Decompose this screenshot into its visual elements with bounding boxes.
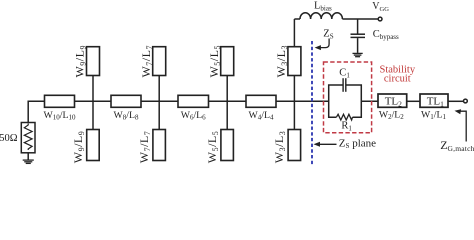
arrow Z_G,match pointer <box>460 111 466 141</box>
stub W9/L9 top box <box>87 47 100 76</box>
wire 250ohm to ground <box>27 153 29 160</box>
svg-text:W9/L9: W9/L9 <box>73 45 88 78</box>
resistor 250ohm box <box>21 123 35 153</box>
series line W6/L6 box <box>178 95 209 107</box>
inductor L_bias <box>300 13 342 19</box>
node Z_S plane dashed line <box>311 41 313 165</box>
series line W8/L8 box <box>111 95 141 107</box>
stub W5/L5 bottom box <box>221 130 234 161</box>
terminal V_GG <box>378 17 382 21</box>
series line W10/L10 box <box>45 95 75 107</box>
wire bias rail left <box>294 18 300 20</box>
wire 250-ohm branch <box>27 101 29 123</box>
svg-text:W3/L3: W3/L3 <box>272 131 287 164</box>
wire main rail <box>28 100 329 102</box>
wire bias rail to VGG <box>342 18 378 20</box>
stub W7/L7 top box <box>153 47 166 76</box>
wire junction 4 bias riser <box>293 19 295 130</box>
svg-text:W5/L5: W5/L5 <box>207 45 222 78</box>
transmission line TL2 box <box>378 94 407 107</box>
capacitor C_bypass plates <box>351 33 366 35</box>
stability loop wires <box>329 85 362 117</box>
stub W3/L3 bottom box <box>288 130 301 161</box>
svg-text:W9/L9: W9/L9 <box>71 131 86 164</box>
series line W4/L4 box <box>246 95 276 107</box>
ground symbol 250ohm <box>23 160 34 163</box>
wire TL1 to output terminal <box>448 100 464 102</box>
svg-text:W7/L7: W7/L7 <box>139 45 154 78</box>
stub W9/L9 bottom box <box>87 130 100 161</box>
wire junction 2 stub riser <box>158 75 160 130</box>
svg-text:ZS plane: ZS plane <box>339 137 376 150</box>
stub W5/L5 top box <box>221 47 234 76</box>
transmission line TL1 box <box>420 94 448 107</box>
svg-text:250Ω: 250Ω <box>0 133 18 144</box>
terminal output <box>464 99 468 103</box>
ground symbol C_bypass <box>353 53 363 56</box>
wire junction 1 stub riser <box>92 75 94 130</box>
resistor 250ohm zigzag <box>24 124 32 151</box>
wire TL2 to TL1 <box>407 100 420 102</box>
arrow Z_S plane pointer <box>319 143 337 145</box>
wire loop to TL2 <box>361 100 378 102</box>
wire C_bypass drop <box>357 19 359 34</box>
arrow Z_S to plane <box>320 39 329 48</box>
stub W7/L7 bottom box <box>153 130 166 161</box>
wire C_bypass to ground <box>357 38 359 53</box>
svg-text:W3/L3: W3/L3 <box>274 45 289 78</box>
stability circuit dashed box <box>324 62 372 133</box>
svg-text:W5/L5: W5/L5 <box>205 131 220 164</box>
svg-text:circuit: circuit <box>384 74 411 85</box>
stub W3/L3 top box (bias riser) <box>288 47 301 76</box>
svg-text:W7/L7: W7/L7 <box>137 131 152 164</box>
capacitor C1 plates <box>342 78 344 92</box>
wire junction 3 stub riser <box>226 75 228 130</box>
resistor R1 zigzag <box>336 114 352 120</box>
